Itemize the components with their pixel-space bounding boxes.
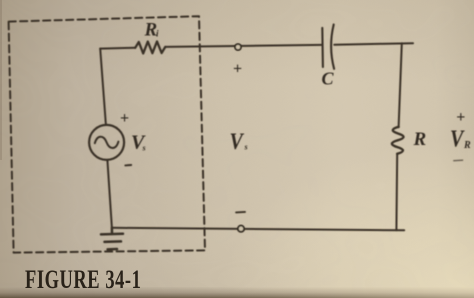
wire: top right (capacitor to corner, with overshoot) bbox=[334, 43, 413, 45]
capacitor C right plate (curved) bbox=[331, 25, 334, 69]
resistor R (vertical zigzag) bbox=[392, 127, 404, 154]
svg-text:+: + bbox=[120, 110, 129, 127]
svg-text:+: + bbox=[456, 109, 465, 126]
wire: source bottom lead bbox=[107, 160, 112, 228]
wire: top-left horizontal (source corner to Ri) bbox=[100, 47, 135, 50]
svg-text:+: + bbox=[233, 61, 242, 78]
minus sign at source bbox=[125, 164, 131, 166]
svg-text:V: V bbox=[450, 125, 465, 152]
svg-text:s: s bbox=[244, 143, 248, 152]
capacitor C left plate bbox=[321, 28, 324, 67]
wire: right vertical upper bbox=[399, 43, 402, 127]
source enclosure dashed box bbox=[9, 16, 205, 252]
minus sign at VR bbox=[454, 159, 463, 162]
svg-text:V: V bbox=[230, 129, 245, 155]
resistor Ri (zigzag) bbox=[135, 41, 165, 53]
ground bbox=[101, 228, 123, 250]
svg-text:s: s bbox=[142, 144, 146, 153]
svg-text:R: R bbox=[463, 140, 471, 151]
svg-text:R: R bbox=[413, 129, 427, 150]
svg-text:C: C bbox=[322, 69, 335, 89]
wire: bottom horizontal bbox=[112, 228, 404, 231]
wire: top middle (Ri to capacitor) bbox=[165, 45, 322, 47]
svg-text:FIGURE 34-1: FIGURE 34-1 bbox=[25, 265, 141, 294]
source Vs (sine source circle) bbox=[89, 125, 124, 160]
node: bottom output terminal bbox=[238, 226, 244, 232]
minus sign at middle node bbox=[236, 211, 245, 214]
node: top output terminal bbox=[235, 44, 241, 50]
wire: right vertical lower bbox=[395, 154, 398, 230]
wire: source top lead bbox=[100, 49, 106, 125]
